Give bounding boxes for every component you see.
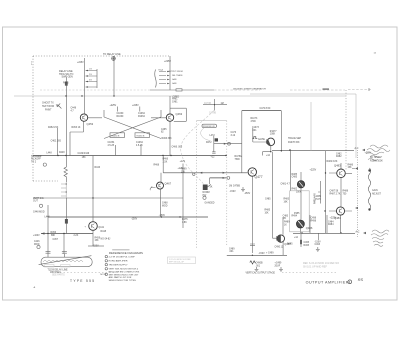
svg-text:VERT SIG: VERT SIG [33, 198, 44, 200]
svg-text:-150V: -150V [315, 241, 322, 243]
svg-text:4.5-25: 4.5-25 [136, 145, 143, 147]
svg-text:TO DELAY LINE: TO DELAY LINE [103, 53, 121, 56]
svg-text:-150V: -150V [93, 246, 100, 248]
svg-text:5K: 5K [210, 186, 213, 188]
svg-text:+ C499: + C499 [266, 253, 274, 255]
svg-text:R478B: R478B [204, 103, 211, 105]
svg-text:DC SHIFT: DC SHIFT [370, 157, 381, 159]
svg-text:Q486: Q486 [306, 226, 313, 230]
svg-text:C449 R449: C449 R449 [78, 153, 90, 155]
svg-text:10K: 10K [265, 213, 270, 215]
svg-text:PICKOFF: PICKOFF [31, 159, 42, 161]
svg-text:C461: C461 [172, 101, 178, 103]
svg-text:Q483: Q483 [334, 164, 341, 168]
svg-text:R483: R483 [284, 199, 290, 201]
svg-text:TRIGGER SUPPLY: TRIGGER SUPPLY [109, 265, 129, 267]
svg-text:R495: R495 [304, 245, 310, 247]
svg-text:OUT: OUT [33, 201, 38, 203]
svg-text:68K: 68K [51, 235, 56, 237]
svg-text:L446: L446 [45, 217, 51, 219]
svg-text:ADJUST: ADJUST [372, 192, 382, 195]
svg-text:+100V: +100V [33, 235, 40, 237]
svg-text:R482 6.8K: R482 6.8K [327, 161, 338, 163]
svg-text:AND PARTS LIST FOR: AND PARTS LIST FOR [109, 276, 132, 279]
svg-text:+225V: +225V [310, 170, 317, 172]
svg-text:T1159 DELAY LINE: T1159 DELAY LINE [48, 268, 69, 271]
svg-text:C487 56: C487 56 [330, 191, 339, 193]
svg-text:R485: R485 [265, 210, 271, 212]
svg-text:GA B: GA B [172, 82, 177, 85]
svg-text:R488: R488 [343, 191, 349, 193]
svg-text:TEXT ROW: TEXT ROW [42, 106, 55, 108]
svg-text:C498: C498 [311, 218, 317, 220]
svg-text:R1064: R1064 [138, 116, 145, 118]
svg-text:A-C: A-C [356, 231, 360, 234]
svg-text:R494: R494 [292, 215, 298, 217]
svg-text:GHOST TX: GHOST TX [42, 103, 54, 105]
svg-text:R475: R475 [182, 219, 188, 221]
svg-text:2-3 TR DOUBTFUL COMP: 2-3 TR DOUBTFUL COMP [109, 257, 136, 259]
svg-text:RS: RS [358, 278, 364, 282]
svg-text:+C499: +C499 [275, 263, 283, 265]
svg-text:R1073: R1073 [251, 118, 258, 120]
svg-text:TRACE SEP: TRACE SEP [288, 137, 301, 140]
svg-text:R448: R448 [59, 152, 65, 154]
svg-text:REGULAR BM CONNECTORS: REGULAR BM CONNECTORS [109, 271, 140, 274]
svg-text:C1060: C1060 [117, 113, 124, 115]
svg-text:+225V: +225V [110, 105, 117, 107]
svg-text:R482: R482 [292, 188, 298, 190]
svg-text:MOD: MOD [162, 205, 168, 207]
svg-text:20UF: 20UF [275, 265, 281, 267]
svg-text:C457: C457 [53, 239, 59, 241]
svg-text:1M: 1M [221, 103, 224, 105]
svg-text:+225V: +225V [77, 62, 84, 64]
svg-text:NO 04-8J: NO 04-8J [101, 239, 111, 241]
svg-text:L472: L472 [210, 135, 216, 137]
svg-text:R1054 B: R1054 B [112, 135, 120, 137]
svg-text:-150V: -150V [244, 193, 251, 195]
svg-text:Q453: Q453 [87, 122, 94, 126]
svg-text:C490 12: C490 12 [275, 246, 284, 248]
svg-text:R484: R484 [328, 224, 334, 226]
svg-text:750K: 750K [235, 159, 241, 161]
svg-text:C470 8-50: C470 8-50 [260, 108, 271, 110]
svg-text:R466 39K: R466 39K [162, 138, 173, 140]
svg-text:C485: C485 [292, 177, 298, 179]
svg-text:TO 2: TO 2 [31, 161, 37, 163]
svg-text:R1064 B: R1064 B [137, 135, 145, 137]
svg-text:C489: C489 [229, 248, 235, 250]
svg-text:100K: 100K [296, 191, 302, 193]
svg-text:4.5-25: 4.5-25 [108, 145, 115, 147]
svg-text:GAIN: GAIN [372, 189, 378, 192]
svg-text:R495: R495 [287, 244, 293, 246]
svg-text:1M C478B: 1M C478B [229, 186, 240, 188]
svg-text:FAINT: FAINT [45, 109, 52, 112]
svg-text:1K: 1K [284, 224, 287, 226]
svg-text:P485: P485 [294, 213, 300, 215]
svg-text:C490B: C490B [256, 263, 263, 265]
svg-text:L448: L448 [47, 152, 53, 154]
svg-text:C493: C493 [315, 244, 321, 246]
svg-text:C485: C485 [265, 199, 271, 201]
svg-text:L1089: L1089 [315, 196, 322, 198]
svg-text:+12V: +12V [180, 161, 186, 163]
svg-text:1.5K: 1.5K [54, 127, 59, 129]
svg-text:NORM: NORM [203, 192, 210, 194]
svg-text:R485: R485 [292, 174, 298, 176]
svg-text:C483: C483 [283, 215, 289, 217]
svg-text:C448: C448 [71, 108, 77, 110]
svg-text:C1073: C1073 [252, 127, 259, 129]
svg-text:VERT SWL MODS SWITCH &: VERT SWL MODS SWITCH & [109, 269, 139, 271]
svg-text:.001: .001 [252, 130, 257, 132]
svg-text:C476: C476 [231, 132, 237, 134]
svg-text:GA B: GA B [172, 78, 177, 81]
svg-text:R1078 15K: R1078 15K [288, 142, 300, 144]
svg-text:1.5K: 1.5K [163, 161, 168, 163]
svg-text:C1064: C1064 [136, 142, 143, 144]
svg-text:GANGED: GANGED [205, 201, 215, 204]
svg-text:.005: .005 [56, 140, 61, 142]
svg-text:R486: R486 [348, 164, 354, 166]
svg-text:-150V: -150V [131, 219, 138, 221]
svg-text:+225V: +225V [164, 60, 171, 63]
svg-text:HORIZ AMPLIFIER: HORIZ AMPLIFIER [109, 260, 128, 263]
svg-text:C481 4.7: C481 4.7 [281, 183, 291, 185]
svg-text:+225V: +225V [365, 153, 372, 155]
svg-text:C465: C465 [161, 129, 167, 131]
svg-text:15K: 15K [348, 167, 353, 169]
svg-text:15K: 15K [95, 240, 100, 242]
svg-text:-150V: -150V [259, 253, 266, 255]
svg-text:DELAYED SWEEP GENERATOR: DELAYED SWEEP GENERATOR [233, 87, 266, 90]
svg-text:R461: R461 [172, 99, 178, 101]
svg-text:47UH: 47UH [315, 199, 321, 201]
svg-text:C1064: C1064 [138, 113, 145, 115]
svg-text:C495: C495 [304, 242, 310, 244]
svg-text:C484: C484 [328, 221, 334, 223]
svg-text:16K: 16K [284, 201, 289, 203]
svg-text:A-C: A-C [355, 147, 359, 150]
svg-text:15K: 15K [82, 157, 87, 159]
svg-text:VERTICAL OUTPUT STAGE: VERTICAL OUTPUT STAGE [246, 271, 276, 274]
svg-text:Q441: Q441 [98, 227, 104, 229]
svg-text:R478A: R478A [235, 155, 242, 158]
svg-text:C446: C446 [34, 241, 40, 243]
svg-text:470K: 470K [251, 121, 257, 123]
svg-text:+225V: +225V [330, 218, 337, 220]
svg-text:100K: 100K [270, 134, 276, 136]
svg-text:Q463: Q463 [176, 112, 183, 116]
svg-text:TYPE 555: TYPE 555 [70, 279, 95, 283]
svg-text:SWP GEN: SWP GEN [62, 76, 74, 79]
svg-text:2.2K: 2.2K [74, 235, 79, 237]
svg-text:C466 .005: C466 .005 [172, 146, 183, 148]
svg-text:C482: C482 [336, 153, 342, 155]
svg-text:Q467: Q467 [165, 181, 172, 185]
svg-text:1.8K: 1.8K [182, 222, 187, 224]
svg-text:R1-A: R1-A [159, 68, 164, 71]
svg-text:-150V: -150V [159, 215, 166, 217]
svg-text:R469: R469 [181, 169, 187, 171]
svg-text:OUTPUT AMPLIFIER: OUTPUT AMPLIFIER [306, 280, 349, 284]
svg-text:Q477: Q477 [255, 175, 263, 179]
svg-text:R489: R489 [284, 222, 290, 224]
svg-text:3-12: 3-12 [231, 135, 236, 137]
svg-text:GATE: GATE [258, 137, 265, 141]
svg-text:R446: R446 [95, 167, 101, 169]
svg-text:R482: R482 [336, 156, 342, 158]
svg-text:R472: R472 [206, 142, 212, 144]
svg-text:SEE SEMICONDUCTOR LIST: SEE SEMICONDUCTOR LIST [109, 274, 139, 276]
svg-text:R1060: R1060 [117, 116, 124, 118]
svg-text:SN 101 UP AND REF: SN 101 UP AND REF [303, 265, 327, 268]
svg-text:.001: .001 [229, 251, 234, 253]
svg-text:SEE PARTS: SEE PARTS [52, 274, 65, 277]
svg-text:C448 MOD: C448 MOD [33, 212, 45, 214]
svg-text:DEL TRACE: DEL TRACE [172, 74, 183, 77]
svg-text:R453 1K: R453 1K [72, 127, 81, 129]
svg-text:R468: R468 [154, 165, 160, 167]
svg-text:C1054: C1054 [108, 142, 115, 144]
svg-text:EFF SN 101-UP: EFF SN 101-UP [169, 262, 185, 264]
svg-text:OUTPUT FROM: OUTPUT FROM [168, 71, 183, 73]
svg-text:+225V: +225V [132, 105, 139, 107]
svg-text:PICKOFF CF: PICKOFF CF [203, 126, 216, 128]
svg-text:SEMICONDUCTOR TYPES: SEMICONDUCTOR TYPES [109, 280, 137, 282]
svg-text:R498: R498 [311, 221, 317, 223]
svg-text:C468: C468 [162, 203, 168, 205]
svg-text:R1077: R1077 [270, 131, 277, 133]
svg-text:.001: .001 [256, 265, 261, 267]
svg-text:15K: 15K [181, 171, 186, 173]
svg-text:REFERENCE DIAGRAMS: REFERENCE DIAGRAMS [109, 251, 143, 255]
svg-text:R1086 100K: R1086 100K [370, 160, 383, 162]
svg-text:R487 2.7K: R487 2.7K [330, 194, 341, 196]
svg-text:TRIGGER: TRIGGER [31, 156, 42, 158]
svg-text:R466: R466 [163, 159, 169, 161]
svg-text:R448: R448 [101, 231, 107, 233]
svg-text:-150V: -150V [230, 191, 237, 193]
svg-text:R445: R445 [63, 83, 69, 85]
svg-text:R456: R456 [51, 232, 57, 234]
